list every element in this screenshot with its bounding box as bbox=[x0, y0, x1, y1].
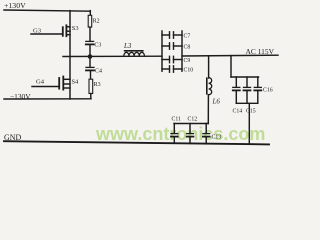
capacitor bank C7-C10 bbox=[162, 31, 193, 74]
wire bbox=[89, 45, 91, 57]
wire: R3 down to -130V rail bbox=[90, 94, 92, 99]
svg-text:L3: L3 bbox=[123, 42, 132, 50]
wire: C11-C13 bus bbox=[174, 123, 208, 125]
svg-text:C12: C12 bbox=[188, 117, 198, 123]
capacitor C10 bbox=[162, 66, 193, 74]
wire right rail bbox=[181, 31, 183, 71]
wire bbox=[89, 57, 91, 68]
svg-text:S4: S4 bbox=[72, 78, 80, 85]
inductor L3 bbox=[123, 42, 144, 56]
capacitor C16 bbox=[254, 77, 272, 103]
wire: -130V rail bbox=[4, 98, 91, 100]
wire: bus down to ground bbox=[248, 103, 250, 144]
svg-text:C8: C8 bbox=[184, 45, 191, 51]
svg-text:C3: C3 bbox=[94, 42, 101, 48]
svg-text:C15: C15 bbox=[246, 108, 256, 114]
wire: R2 branch from +130V rail bbox=[89, 11, 91, 16]
svg-text:C7: C7 bbox=[184, 34, 191, 40]
svg-text:G3: G3 bbox=[33, 28, 42, 35]
svg-text:C11: C11 bbox=[172, 117, 182, 123]
capacitor C14 bbox=[233, 77, 243, 114]
capacitor C12 bbox=[187, 117, 198, 144]
wire: bottom bus bbox=[236, 102, 257, 104]
capacitor C15 bbox=[244, 77, 256, 114]
svg-text:L6: L6 bbox=[212, 98, 221, 106]
capacitor C9 bbox=[162, 56, 190, 64]
svg-text:S3: S3 bbox=[72, 25, 79, 32]
svg-text:C16: C16 bbox=[263, 87, 273, 93]
capacitor C7 bbox=[162, 32, 190, 40]
resistor R3 bbox=[89, 79, 93, 93]
wire: L6 branch down bbox=[208, 56, 210, 78]
svg-text:G4: G4 bbox=[36, 79, 45, 86]
svg-text:R3: R3 bbox=[94, 82, 101, 88]
wire bbox=[89, 27, 91, 41]
capacitor C13 bbox=[203, 124, 221, 144]
capacitor C3 bbox=[86, 41, 102, 48]
wire: AC output line bbox=[182, 54, 278, 57]
svg-text:+130V: +130V bbox=[4, 1, 26, 10]
svg-text:C13: C13 bbox=[212, 135, 222, 141]
svg-text:AC 115V: AC 115V bbox=[246, 49, 275, 56]
svg-text:GND: GND bbox=[4, 133, 22, 142]
wire: top bus bbox=[231, 76, 259, 78]
svg-text:R2: R2 bbox=[93, 19, 100, 25]
ground bbox=[4, 141, 269, 144]
wire: gate lead G4 bbox=[32, 86, 59, 88]
+130V rail bbox=[4, 10, 90, 11]
transistor S3 bbox=[63, 25, 79, 36]
paper background bbox=[0, 0, 283, 150]
wire left rail bbox=[161, 31, 163, 71]
capacitor C8 bbox=[162, 43, 190, 51]
transistor S4 bbox=[59, 77, 79, 90]
resistor R2 bbox=[88, 15, 92, 27]
wire: midpoint to cap bank bbox=[63, 55, 162, 57]
inductor L6 bbox=[206, 77, 220, 105]
svg-text:www.cntronics.com: www.cntronics.com bbox=[95, 124, 265, 144]
wire: L6 to bus bbox=[207, 95, 209, 124]
capacitor C4 bbox=[86, 67, 102, 74]
node midpoint junction bbox=[88, 54, 93, 59]
wire: C14-C16 branch down from AC line bbox=[230, 56, 232, 77]
wire: gate lead G3 bbox=[31, 33, 63, 35]
capacitor C11 bbox=[171, 117, 181, 144]
svg-text:C9: C9 bbox=[184, 58, 191, 64]
svg-text:C14: C14 bbox=[233, 108, 243, 114]
wire bbox=[90, 71, 92, 79]
svg-text:−130V: −130V bbox=[10, 92, 31, 101]
svg-text:C4: C4 bbox=[95, 68, 102, 74]
svg-text:C10: C10 bbox=[184, 68, 194, 74]
wire: S3/S4 vertical rail bbox=[69, 11, 71, 99]
